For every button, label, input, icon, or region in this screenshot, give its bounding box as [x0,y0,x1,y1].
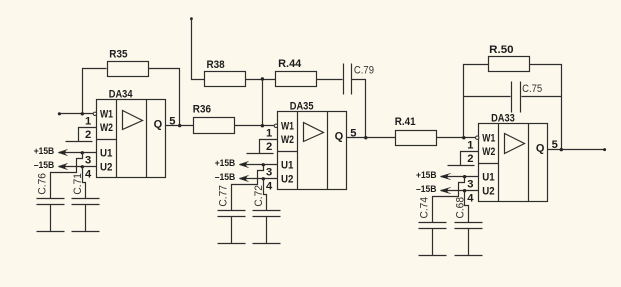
node on +15V wire [463,175,466,178]
-15V supply wire to pin 4 of DA34 [59,166,97,168]
capacitor C.68 [455,223,483,256]
resistor R38 [205,59,246,86]
svg-text:W2: W2 [482,146,495,158]
svg-text:W1: W1 [281,121,294,133]
svg-text:3: 3 [266,167,272,179]
svg-text:1: 1 [266,128,272,140]
svg-text:R36: R36 [193,103,211,115]
-15V supply wire to pin 4 of DA33 [441,190,479,192]
wire +15V to capacitor C.77 [232,165,264,211]
op-amp DA34 [93,100,165,178]
svg-text:U2: U2 [281,174,293,186]
capacitor C.76 [37,199,65,232]
node on +15V wire [262,163,265,166]
svg-text:–15В: –15В [34,160,55,170]
resistor R.41 [395,116,437,145]
wire DA34 output to R36 [166,125,194,127]
svg-text:U1: U1 [281,160,293,172]
node: R35 junction on DA34 output wire [178,124,181,127]
svg-text:2: 2 [85,129,91,141]
resistor R.44 [276,58,317,87]
capacitor C.77 [218,211,246,244]
-15V arrowhead [440,188,449,193]
svg-text:–15В: –15В [215,172,236,182]
svg-text:+15В: +15В [34,146,55,156]
ground bar at pin 2 of DA34 [66,141,93,143]
svg-text:R.44: R.44 [278,58,302,70]
svg-text:+15В: +15В [416,170,437,180]
svg-text:C.68: C.68 [455,197,467,219]
svg-text:4: 4 [467,193,474,205]
wire R.41 to DA33 W1 [437,137,476,139]
wire +15V to capacitor C.76 [51,153,83,199]
node on -15V wire [262,177,265,180]
svg-text:4: 4 [85,169,92,181]
wire R38 to R.44 [246,79,276,81]
wire DA33 output [548,149,605,151]
svg-text:R35: R35 [109,49,127,61]
svg-text:C.74: C.74 [419,197,431,219]
node: junction from R38 on DA35 W1 wire [261,124,264,127]
-15V arrowhead [58,164,67,169]
node: R35 feedback junction on input wire [81,112,84,115]
svg-text:1: 1 [467,140,473,152]
svg-text:–15В: –15В [416,184,437,194]
ground bar under C.74 [419,255,447,257]
svg-text:DA35: DA35 [290,101,314,113]
svg-text:R.50: R.50 [489,44,513,56]
wire pin2 DA34 stub [79,128,97,142]
ground bar at pin 2 of DA35 [247,153,274,155]
svg-text:3: 3 [467,179,473,191]
svg-text:+15В: +15В [215,158,236,168]
svg-text:U2: U2 [100,162,112,174]
-15V supply wire to pin 4 of DA35 [240,178,278,180]
svg-text:U1: U1 [482,172,494,184]
svg-text:W1: W1 [100,109,113,121]
svg-text:1: 1 [85,116,91,128]
ground bar under C.71 [72,231,100,233]
op-amp DA33 [476,124,548,202]
node: output terminal [603,148,606,151]
op-amp DA35 [274,112,346,190]
svg-text:U2: U2 [482,186,494,198]
capacitor C.74 [419,223,447,256]
node: R.50 feedback junction on DA33 W1 wire [462,136,465,139]
+15V supply wire to pin 3 of DA34 [59,152,97,154]
svg-text:W1: W1 [482,133,495,145]
ground bar under C.72 [253,243,281,245]
svg-text:C.72: C.72 [253,185,265,207]
svg-text:R.41: R.41 [395,116,416,128]
svg-text:Q: Q [536,142,545,154]
wire pin2 DA35 stub [260,140,278,154]
node: C.79 junction on DA35 output [364,136,367,139]
+15V arrowhead [58,150,67,155]
+15V supply wire to pin 3 of DA33 [441,176,479,178]
svg-text:C.77: C.77 [217,185,229,207]
wire C.79 down to DA35 output [352,80,366,138]
node: feedback junction on DA33 output [560,148,563,151]
node: junction R38/R.44 [261,77,264,80]
wire DA34 W1 junction up to R35 [83,69,107,114]
wire DA33 W1 junction up to R.50 [464,65,489,138]
resistor R35 [108,49,149,77]
node on -15V wire [81,165,84,168]
wire R.50 to DA33 output [530,65,562,150]
resistor R.50 [489,44,530,72]
wire +15V to capacitor C.74 [433,177,465,223]
ground bar at pin 2 of DA33 [448,165,475,167]
svg-text:DA33: DA33 [491,113,515,125]
wire connector down to R38 [192,19,205,80]
+15V supply wire to pin 3 of DA35 [240,164,278,166]
svg-text:Q: Q [335,131,344,143]
+15V arrowhead [239,162,248,167]
capacitor C.71 [72,199,100,232]
wire R36 to DA35 W1 [235,125,275,127]
capacitor C.75 [512,82,521,113]
wire input to DA34 W1 [60,113,94,115]
resistor R36 [193,103,235,133]
wire pin2 DA33 stub [461,152,479,166]
node: input terminal [58,112,61,115]
svg-text:Q: Q [154,119,163,131]
svg-text:DA34: DA34 [109,89,133,101]
svg-text:W2: W2 [281,134,294,146]
svg-text:R38: R38 [207,59,225,71]
svg-text:C.71: C.71 [72,173,84,195]
capacitor C.79 [344,64,352,95]
ground bar under C.76 [37,231,65,233]
wire R35 to DA34 output [149,69,180,126]
svg-text:2: 2 [467,153,473,165]
node on -15V wire [463,189,466,192]
wire R.44 to C.79 [317,79,343,81]
wire -15V to capacitor C.68 [465,191,469,223]
ground bar under C.68 [455,255,483,257]
+15V arrowhead [440,174,449,179]
wire C.75 branch left [464,96,511,98]
svg-text:2: 2 [266,141,272,153]
svg-text:C.76: C.76 [36,173,48,195]
capacitor C.72 [253,211,281,244]
node: off-page connector top [190,17,193,20]
node on +15V wire [81,151,84,154]
svg-text:C.79: C.79 [354,64,374,76]
svg-text:C.75: C.75 [522,83,542,95]
svg-text:W2: W2 [100,122,113,134]
wire -15V to capacitor C.72 [264,179,267,211]
wire DA35 output to R.41 [347,137,396,139]
wire junction down to DA35 W1 wire [262,80,264,126]
svg-text:U1: U1 [100,148,112,160]
wire -15V to capacitor C.71 [83,167,86,199]
ground bar under C.77 [218,243,246,245]
svg-text:3: 3 [85,155,91,167]
svg-text:4: 4 [266,181,273,193]
wire C.75 branch right [522,96,562,98]
-15V arrowhead [239,176,248,181]
